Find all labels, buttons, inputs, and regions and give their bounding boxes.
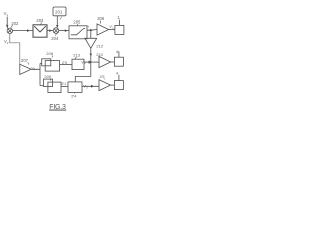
box 209 pulse shaper bbox=[44, 79, 62, 93]
tick mark near oscillator wire bbox=[60, 17, 62, 20]
wire box213 to amp216 bbox=[84, 61, 99, 63]
terminal box 4 bbox=[114, 49, 123, 66]
svg-text:210: 210 bbox=[96, 52, 103, 57]
label 214 bbox=[71, 93, 77, 99]
wire amp216 to terminal 4 bbox=[111, 61, 115, 63]
svg-text:213: 213 bbox=[73, 53, 80, 58]
label 209 bbox=[44, 74, 51, 80]
svg-text:204: 204 bbox=[51, 36, 59, 41]
mixer 202 bbox=[7, 28, 12, 33]
label 207 bbox=[21, 58, 29, 65]
svg-text:V′3: V′3 bbox=[83, 85, 88, 90]
inverter 212 bbox=[85, 38, 97, 48]
op-amp 216 bbox=[99, 56, 111, 67]
arrowhead into mixer 204 top bbox=[56, 25, 59, 28]
op-amp 217 bbox=[99, 80, 111, 91]
box 213 bbox=[72, 59, 84, 69]
wire box203 to mixer204 bbox=[47, 30, 53, 32]
label 206 bbox=[97, 16, 105, 23]
wire inverter down and left to box 214 bbox=[75, 48, 91, 82]
svg-text:4: 4 bbox=[116, 70, 119, 75]
svg-text:206: 206 bbox=[97, 16, 105, 21]
svg-text:208: 208 bbox=[46, 51, 53, 56]
svg-text:2′0: 2′0 bbox=[62, 60, 68, 65]
terminal box 1 bbox=[115, 15, 124, 35]
label 213 bbox=[73, 53, 80, 60]
arrowhead on vertical wire bbox=[90, 54, 93, 57]
wire amp206 to terminal 1 bbox=[109, 29, 115, 31]
box 208 pulse shaper bbox=[42, 59, 60, 71]
label 217 bbox=[100, 75, 105, 80]
svg-text:203: 203 bbox=[36, 18, 44, 23]
svg-text:V1: V1 bbox=[4, 11, 9, 17]
svg-text:1: 1 bbox=[117, 15, 120, 20]
wire junction down to inverter 212 bbox=[90, 31, 92, 38]
arrowhead into mixer 204 bbox=[49, 29, 52, 32]
wire oscillator 201 to mixer 204 bbox=[56, 16, 58, 28]
svg-text:2′5: 2′5 bbox=[100, 75, 105, 79]
arrowhead into box 205 bbox=[65, 29, 68, 32]
svg-text:2′1: 2′1 bbox=[61, 81, 67, 86]
label 202 bbox=[11, 21, 19, 28]
svg-text:202: 202 bbox=[11, 21, 19, 26]
caption FIG.3 bbox=[49, 104, 66, 111]
arrowhead into mixer 202 bbox=[6, 25, 9, 28]
wire V1 input bbox=[6, 17, 9, 29]
arrowhead into amp 216 bbox=[89, 61, 93, 64]
label 216 bbox=[96, 52, 103, 58]
svg-text:V2: V2 bbox=[4, 39, 9, 45]
svg-text:2′4: 2′4 bbox=[71, 94, 77, 99]
wire mixer202 to box203 bbox=[13, 30, 34, 32]
box 205 limiter bbox=[69, 26, 87, 39]
label 208 bbox=[46, 51, 53, 57]
svg-text:V3: V3 bbox=[31, 66, 35, 71]
oscillator 201 bbox=[53, 7, 66, 16]
label 205 bbox=[73, 20, 81, 26]
arrowhead into box 203 bbox=[27, 29, 30, 32]
svg-text:4: 4 bbox=[116, 49, 119, 54]
svg-text:209: 209 bbox=[44, 74, 51, 79]
box 214 bbox=[68, 82, 82, 93]
mixer 204 bbox=[53, 28, 59, 34]
wire box208 to box213 with label 210 bbox=[60, 64, 72, 66]
label 203 bbox=[36, 18, 44, 25]
svg-text:V′1: V′1 bbox=[109, 25, 114, 30]
svg-text:201: 201 bbox=[55, 10, 63, 15]
wire amp217 to terminal bbox=[111, 84, 115, 86]
box 203 envelope detector bbox=[33, 25, 47, 37]
terminal box bottom bbox=[114, 70, 123, 89]
svg-text:207: 207 bbox=[21, 58, 29, 63]
wire mixer204 to box205 bbox=[59, 30, 69, 32]
wire mixer202 down to amp207 bbox=[10, 34, 20, 65]
wire box209 to box214 with label 211 bbox=[61, 86, 68, 88]
svg-text:205: 205 bbox=[73, 20, 81, 25]
wire amp207 output splitting to 208 and 209 bbox=[31, 64, 43, 86]
junction node dot bbox=[90, 29, 92, 31]
arrowhead into amp 217 bbox=[91, 85, 94, 88]
wire box214 to amp217 bbox=[82, 85, 99, 87]
wire box205 to amp206 bbox=[87, 29, 97, 32]
svg-text:v: v bbox=[88, 25, 90, 29]
label 204 bbox=[51, 34, 59, 42]
op-amp 207 bbox=[20, 64, 31, 74]
op-amp 206 bbox=[97, 24, 109, 35]
svg-text:V′2: V′2 bbox=[81, 60, 86, 65]
svg-text:212: 212 bbox=[96, 43, 103, 48]
